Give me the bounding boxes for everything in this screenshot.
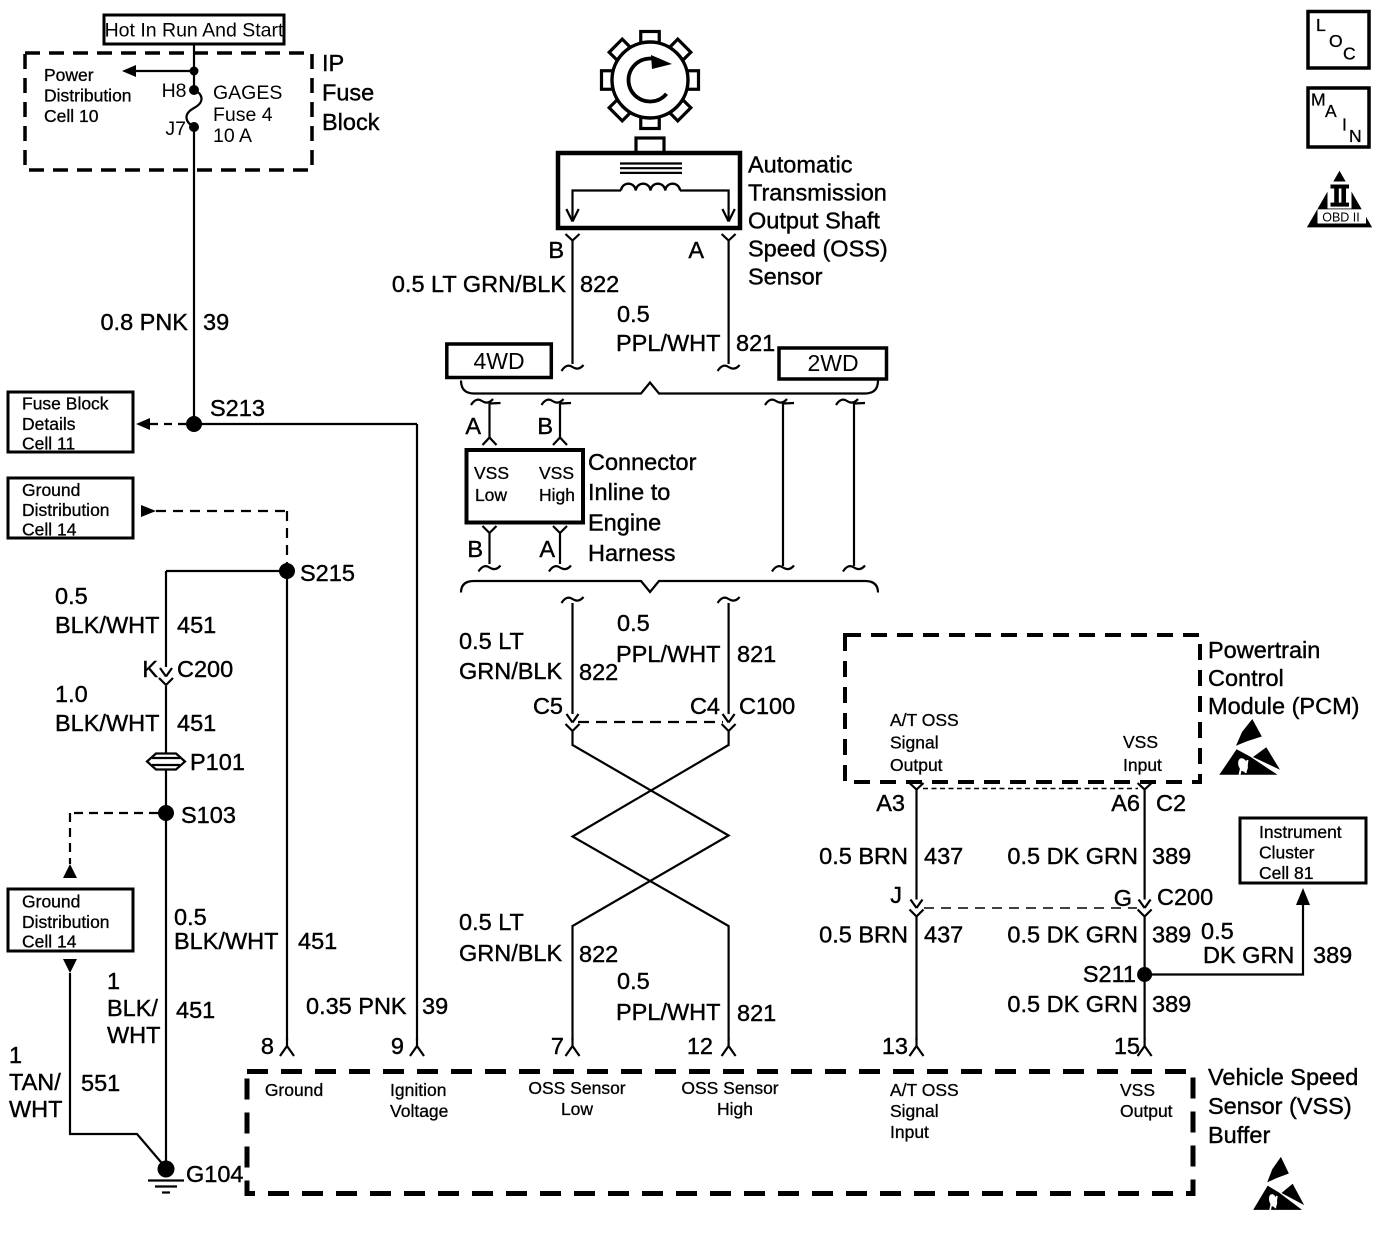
- svg-text:BLK/: BLK/: [107, 995, 158, 1021]
- svg-text:OSS Sensor: OSS Sensor: [681, 1078, 778, 1098]
- svg-text:C200: C200: [177, 656, 233, 682]
- svg-text:VSS: VSS: [1123, 732, 1158, 752]
- svg-text:BLK/WHT: BLK/WHT: [55, 612, 159, 638]
- svg-text:Signal: Signal: [890, 733, 939, 753]
- svg-text:389: 389: [1152, 922, 1191, 948]
- svg-text:0.5 DK GRN: 0.5 DK GRN: [1007, 843, 1138, 869]
- svg-text:Engine: Engine: [588, 510, 661, 536]
- svg-text:Module (PCM): Module (PCM): [1208, 693, 1359, 719]
- svg-text:L: L: [1316, 15, 1326, 35]
- svg-text:Hot In Run And Start: Hot In Run And Start: [105, 20, 284, 42]
- svg-text:451: 451: [176, 997, 215, 1023]
- svg-text:H8: H8: [162, 80, 187, 102]
- svg-text:WHT: WHT: [9, 1096, 63, 1122]
- svg-text:I: I: [1342, 115, 1347, 135]
- svg-text:Instrument: Instrument: [1259, 822, 1342, 842]
- svg-text:C200: C200: [1157, 884, 1213, 910]
- svg-text:Distribution: Distribution: [22, 912, 110, 932]
- svg-text:A: A: [465, 413, 481, 439]
- svg-text:0.5 LT: 0.5 LT: [459, 628, 524, 654]
- svg-text:P101: P101: [190, 749, 245, 775]
- svg-text:451: 451: [177, 710, 216, 736]
- svg-text:A/T OSS: A/T OSS: [890, 1080, 959, 1100]
- svg-text:8: 8: [261, 1033, 274, 1059]
- svg-text:451: 451: [177, 612, 216, 638]
- svg-text:Cell 11: Cell 11: [22, 434, 75, 454]
- svg-text:822: 822: [580, 271, 619, 297]
- svg-text:Details: Details: [22, 414, 76, 434]
- svg-text:O: O: [1329, 31, 1343, 51]
- svg-text:0.5 DK GRN: 0.5 DK GRN: [1007, 922, 1138, 948]
- svg-text:Powertrain: Powertrain: [1208, 637, 1320, 663]
- svg-text:TAN/: TAN/: [9, 1069, 61, 1095]
- svg-text:0.5 DK GRN: 0.5 DK GRN: [1007, 991, 1138, 1017]
- svg-text:10 A: 10 A: [213, 125, 252, 147]
- svg-text:821: 821: [737, 1000, 776, 1026]
- svg-text:Ground: Ground: [22, 480, 80, 500]
- svg-text:9: 9: [391, 1033, 404, 1059]
- svg-text:High: High: [717, 1099, 753, 1119]
- svg-text:1: 1: [9, 1042, 22, 1068]
- svg-text:S215: S215: [300, 560, 355, 586]
- svg-text:Sensor: Sensor: [748, 264, 823, 290]
- svg-text:821: 821: [736, 330, 775, 356]
- svg-text:Ignition: Ignition: [390, 1080, 446, 1100]
- svg-text:Power: Power: [44, 65, 94, 85]
- svg-text:0.5 LT: 0.5 LT: [459, 909, 524, 935]
- svg-text:0.5 BRN: 0.5 BRN: [819, 922, 908, 948]
- svg-text:VSS: VSS: [474, 463, 509, 483]
- svg-text:G104: G104: [186, 1161, 244, 1187]
- svg-text:K: K: [142, 656, 158, 682]
- svg-text:Ground: Ground: [265, 1080, 323, 1100]
- svg-text:Cell 81: Cell 81: [1259, 863, 1313, 883]
- svg-text:C100: C100: [739, 693, 795, 719]
- svg-text:0.5: 0.5: [617, 968, 650, 994]
- svg-text:Connector: Connector: [588, 449, 697, 475]
- svg-text:Input: Input: [890, 1122, 929, 1142]
- svg-text:12: 12: [687, 1033, 713, 1059]
- svg-text:Speed (OSS): Speed (OSS): [748, 236, 888, 262]
- svg-text:Cluster: Cluster: [1259, 843, 1315, 863]
- svg-text:1.0: 1.0: [55, 681, 88, 707]
- svg-text:0.5: 0.5: [174, 904, 207, 930]
- svg-text:M: M: [1311, 90, 1326, 110]
- svg-text:Block: Block: [322, 109, 380, 135]
- svg-text:2WD: 2WD: [807, 350, 858, 376]
- svg-text:Ground: Ground: [22, 892, 80, 912]
- svg-text:Harness: Harness: [588, 540, 676, 566]
- svg-text:VSS: VSS: [1120, 1080, 1155, 1100]
- svg-text:437: 437: [924, 843, 963, 869]
- svg-text:0.5 LT GRN/BLK: 0.5 LT GRN/BLK: [392, 271, 566, 297]
- svg-text:0.5: 0.5: [617, 610, 650, 636]
- svg-text:389: 389: [1313, 942, 1352, 968]
- svg-text:Automatic: Automatic: [748, 152, 853, 178]
- svg-text:1: 1: [107, 968, 120, 994]
- svg-text:Vehicle Speed: Vehicle Speed: [1208, 1064, 1358, 1090]
- svg-text:PPL/WHT: PPL/WHT: [616, 330, 720, 356]
- svg-text:0.5: 0.5: [617, 301, 650, 327]
- svg-text:OBD II: OBD II: [1322, 211, 1360, 225]
- svg-text:0.8 PNK: 0.8 PNK: [100, 309, 188, 335]
- svg-text:Fuse: Fuse: [322, 80, 374, 106]
- svg-text:Output: Output: [890, 755, 943, 775]
- svg-text:GAGES: GAGES: [213, 82, 282, 104]
- svg-text:0.35 PNK: 0.35 PNK: [306, 993, 407, 1019]
- svg-text:Inline to: Inline to: [588, 479, 670, 505]
- svg-text:B: B: [548, 237, 564, 263]
- svg-text:822: 822: [579, 941, 618, 967]
- svg-text:A: A: [1325, 101, 1337, 121]
- svg-text:N: N: [1349, 126, 1362, 146]
- svg-text:821: 821: [737, 641, 776, 667]
- svg-text:B: B: [537, 413, 553, 439]
- svg-text:IP: IP: [322, 50, 344, 76]
- svg-text:C2: C2: [1156, 790, 1186, 816]
- svg-text:High: High: [539, 485, 575, 505]
- svg-text:Voltage: Voltage: [390, 1101, 448, 1121]
- svg-text:GRN/BLK: GRN/BLK: [459, 658, 562, 684]
- svg-text:A: A: [539, 536, 555, 562]
- svg-text:15: 15: [1114, 1033, 1140, 1059]
- svg-text:Transmission: Transmission: [748, 180, 887, 206]
- svg-text:437: 437: [924, 922, 963, 948]
- svg-text:0.5 BRN: 0.5 BRN: [819, 843, 908, 869]
- svg-text:OSS Sensor: OSS Sensor: [528, 1078, 625, 1098]
- svg-text:Control: Control: [1208, 665, 1284, 691]
- svg-text:PPL/WHT: PPL/WHT: [616, 641, 720, 667]
- svg-text:Cell 14: Cell 14: [22, 932, 77, 952]
- svg-text:Output Shaft: Output Shaft: [748, 208, 880, 234]
- svg-text:Sensor (VSS): Sensor (VSS): [1208, 1093, 1352, 1119]
- svg-text:0.5: 0.5: [55, 583, 88, 609]
- svg-text:Distribution: Distribution: [44, 86, 132, 106]
- svg-text:A/T OSS: A/T OSS: [890, 710, 959, 730]
- svg-text:389: 389: [1152, 991, 1191, 1017]
- svg-text:S213: S213: [210, 395, 265, 421]
- svg-text:Signal: Signal: [890, 1101, 939, 1121]
- svg-text:Buffer: Buffer: [1208, 1122, 1270, 1148]
- svg-text:4WD: 4WD: [473, 348, 524, 374]
- svg-text:Cell 10: Cell 10: [44, 106, 99, 126]
- svg-text:Fuse 4: Fuse 4: [213, 104, 273, 126]
- svg-text:C4: C4: [690, 693, 720, 719]
- svg-text:S103: S103: [181, 802, 236, 828]
- svg-text:BLK/WHT: BLK/WHT: [55, 710, 159, 736]
- svg-text:WHT: WHT: [107, 1022, 161, 1048]
- svg-text:A6: A6: [1111, 790, 1140, 816]
- svg-text:GRN/BLK: GRN/BLK: [459, 940, 562, 966]
- svg-text:S211: S211: [1083, 961, 1136, 987]
- svg-text:VSS: VSS: [539, 463, 574, 483]
- svg-text:Input: Input: [1123, 755, 1162, 775]
- svg-text:13: 13: [882, 1033, 908, 1059]
- svg-text:C5: C5: [533, 693, 563, 719]
- svg-text:C: C: [1343, 44, 1356, 64]
- svg-text:7: 7: [551, 1033, 564, 1059]
- svg-text:J: J: [890, 882, 902, 908]
- svg-text:BLK/WHT: BLK/WHT: [174, 928, 278, 954]
- svg-text:A: A: [688, 237, 704, 263]
- svg-text:Cell 14: Cell 14: [22, 520, 77, 540]
- svg-text:Low: Low: [475, 485, 507, 505]
- svg-text:Low: Low: [561, 1099, 593, 1119]
- svg-text:B: B: [467, 536, 483, 562]
- svg-text:A3: A3: [876, 790, 905, 816]
- svg-text:39: 39: [203, 309, 229, 335]
- svg-text:451: 451: [298, 928, 337, 954]
- svg-text:Output: Output: [1120, 1101, 1173, 1121]
- svg-text:PPL/WHT: PPL/WHT: [616, 999, 720, 1025]
- svg-text:389: 389: [1152, 843, 1191, 869]
- svg-text:G: G: [1114, 885, 1132, 911]
- svg-text:Fuse Block: Fuse Block: [22, 394, 109, 414]
- svg-text:J7: J7: [165, 118, 186, 140]
- svg-text:822: 822: [579, 659, 618, 685]
- svg-text:0.5: 0.5: [1201, 918, 1234, 944]
- svg-text:551: 551: [81, 1070, 120, 1096]
- svg-text:DK GRN: DK GRN: [1203, 942, 1294, 968]
- svg-text:39: 39: [422, 993, 448, 1019]
- svg-text:Distribution: Distribution: [22, 500, 110, 520]
